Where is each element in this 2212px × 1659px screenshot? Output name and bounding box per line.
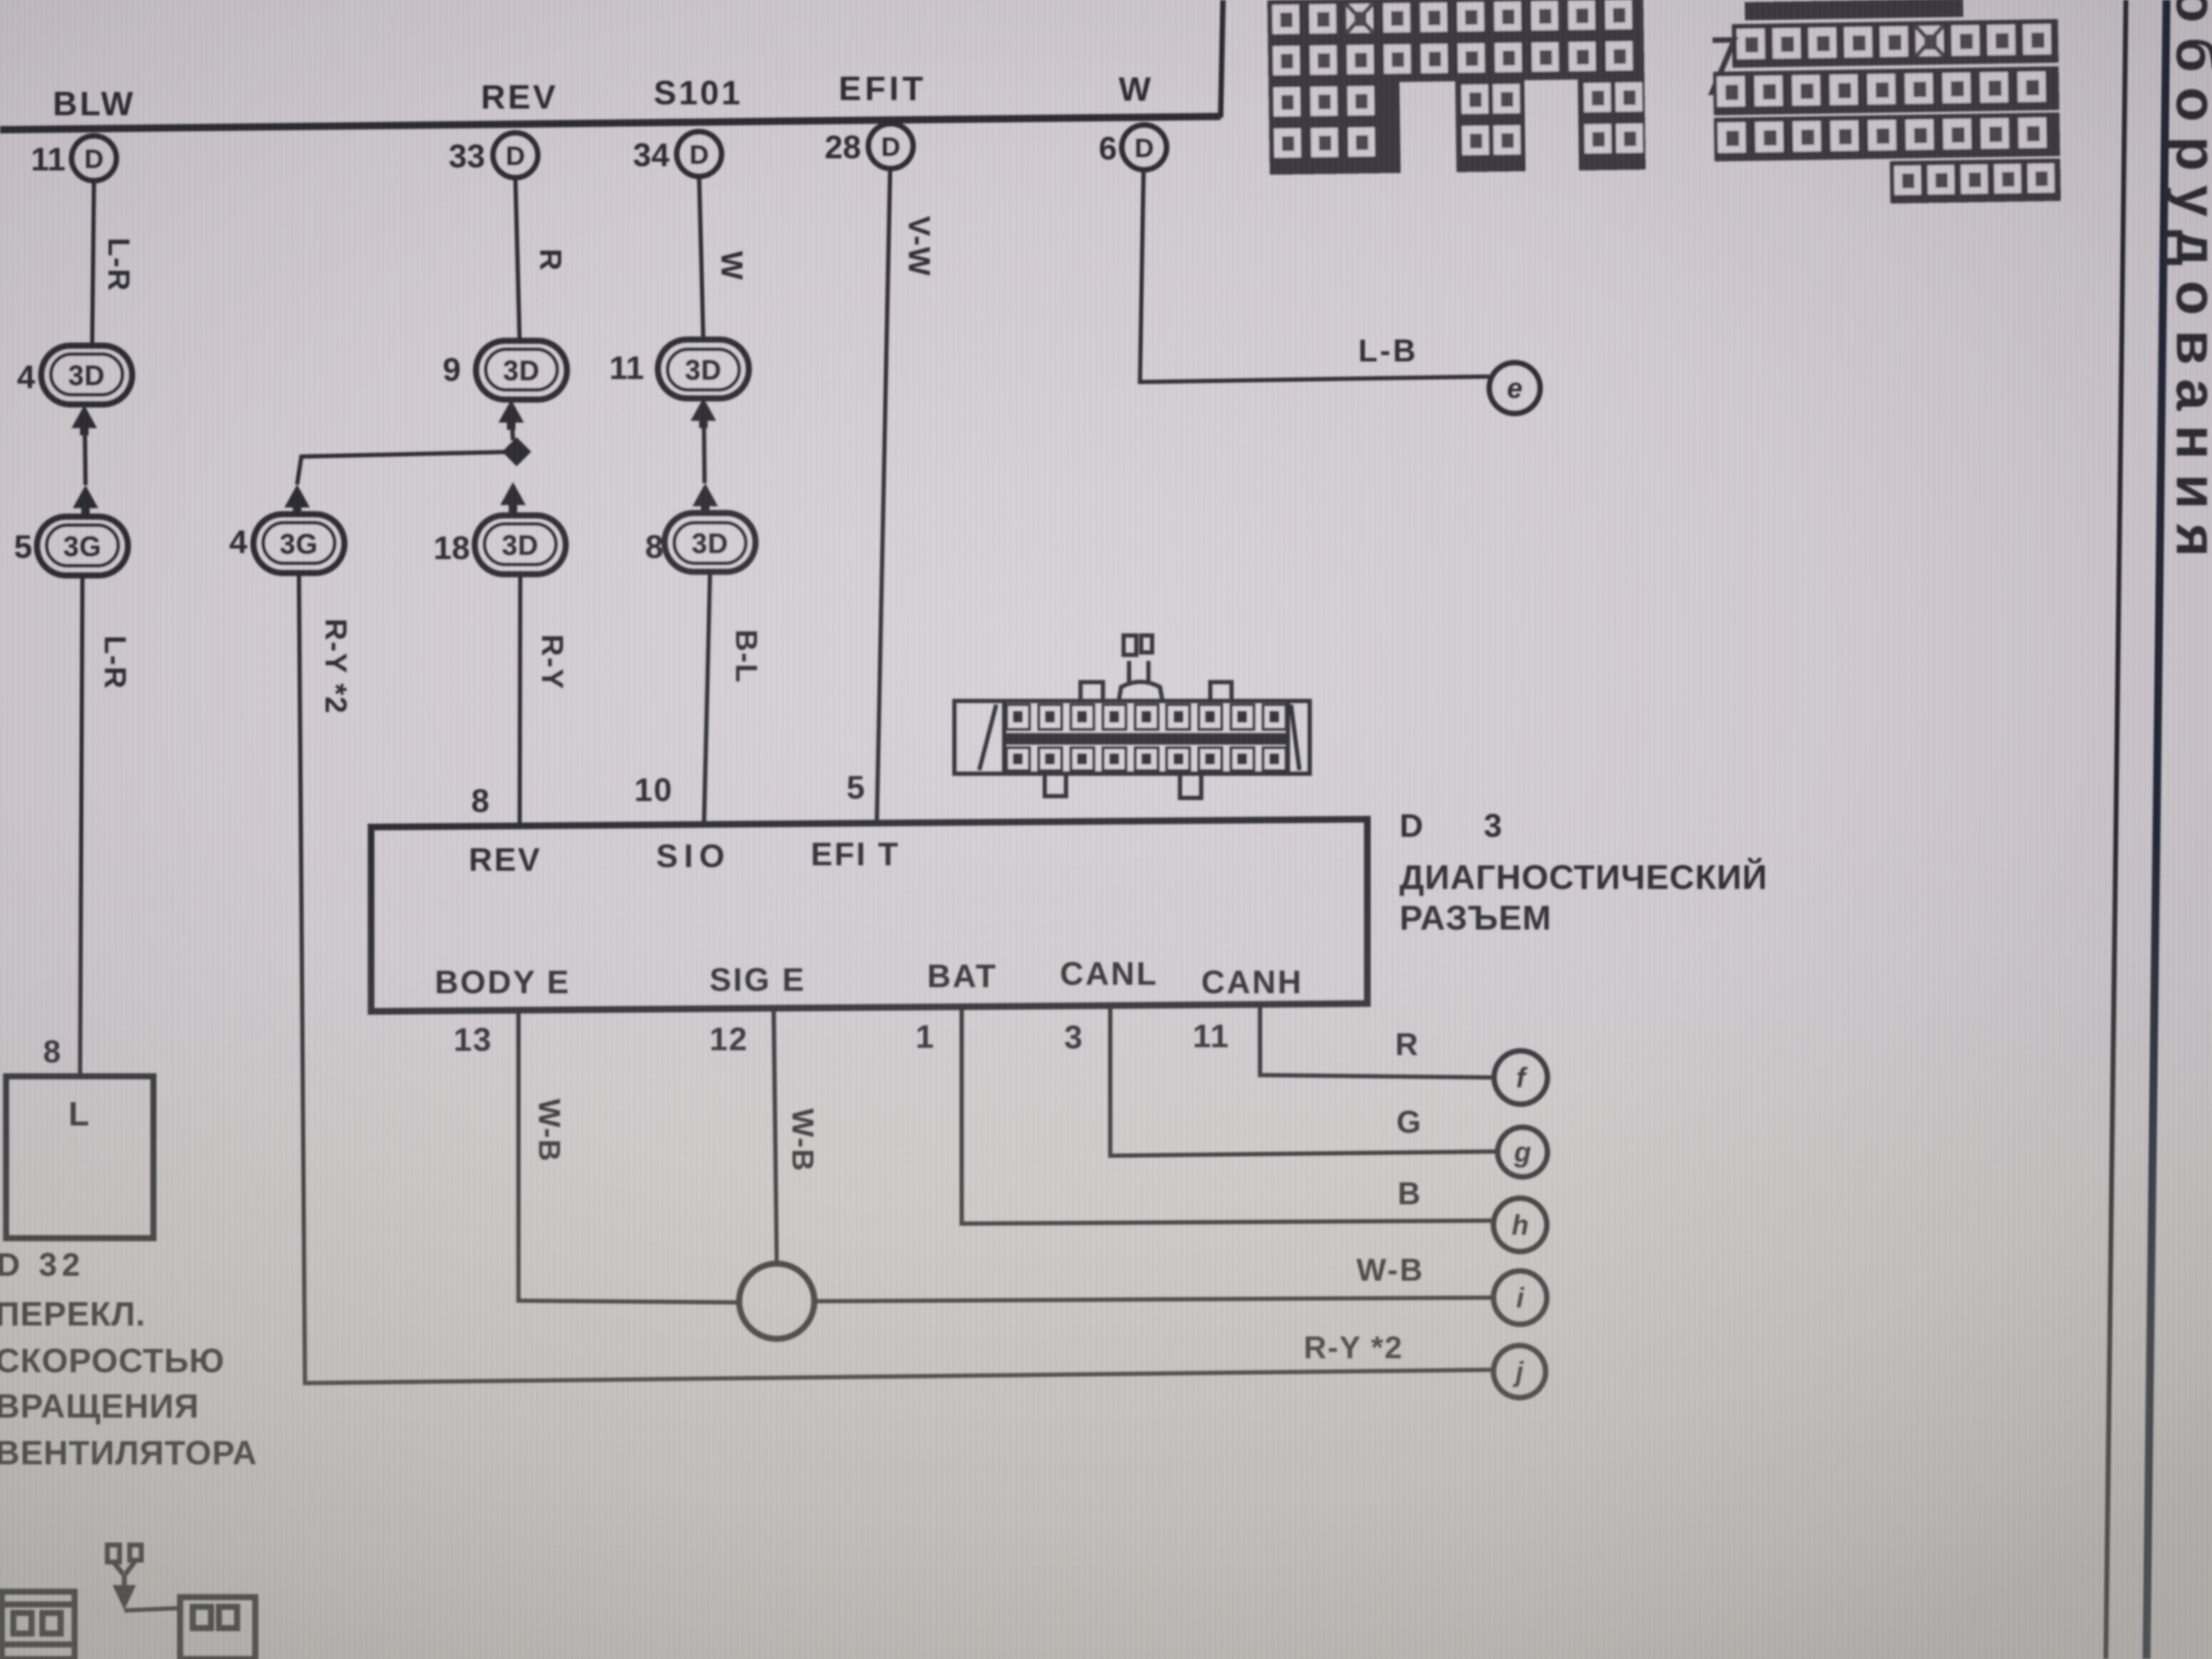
jumper wire junction to 4(3G) [297,452,517,484]
page border line (thick) [2147,0,2167,1659]
ground point f [1494,1051,1547,1104]
grid B row 1 left Z mark [1711,40,1736,93]
connector pinout grid B row 2 [1713,66,2059,115]
wire DLC pin 3 CANL to point g, G [1110,1008,1498,1156]
junction node on REV wire [502,437,531,466]
DLC3 pictogram pin rows [1006,705,1288,771]
wire 28(D) to DLC pin 5, V-W [877,169,890,823]
partial connector box (bottom left corner) [2,1592,75,1659]
DLC3 diagnostic connector box D3 [371,819,1367,1011]
wire DLC pin 12 to ground splice, W-B [774,1011,777,1265]
ground point g [1498,1127,1547,1177]
wire DLC pin 13 to ground splice, W-B [518,1011,740,1302]
connector arrow above 4(3G) [284,484,310,515]
DLC3 connector pictogram [954,635,1310,798]
connector arrow under 9(3D) [498,400,524,430]
ground point j [1493,1346,1546,1398]
connector pinout grid B row 1 [1732,19,2059,67]
wire 5(3G) to fan switch, L-R [80,575,82,1076]
ground point h [1493,1198,1547,1252]
connector arrow under 11(3D) [691,398,716,428]
connector arrow above 18(3D) [500,482,526,512]
X-ed pin in grid B row 1 [1915,25,1944,56]
connector 9(3D) [443,341,567,400]
connector 4(3G) [229,514,344,573]
wire 34(D) to 11(3D), W [699,176,703,342]
ground point e [1489,363,1540,414]
connector 4(3D) [17,346,132,404]
X-ed pin in grid A row 1 [1346,4,1373,33]
wire 33(D) to 9(3D), R [515,178,520,343]
connector pinout grid B row 4 [1890,158,2061,203]
connector pinout grid A row 3 [1269,78,1645,129]
ground point i [1493,1271,1547,1324]
connector pinout grid A row 1 [1267,0,1644,42]
connector 5(3G) [14,517,128,575]
connector 11(3D) [609,340,749,398]
partial connector box (bottom, second) [124,1597,255,1659]
wire ground splice to point i, W-B [814,1298,1494,1301]
wire stub up at bus right end [1221,0,1223,118]
pin 6(D) [1099,125,1167,170]
wire 11(3D) to 8(3D) [704,428,705,483]
connector arrow under 4(3D) [72,405,97,435]
pin 11(D) [31,136,116,181]
wire 6(D) to ground e, L-B [1140,170,1489,382]
connector arrow above 5(3G) [73,485,98,515]
page rule line (thin) [2106,0,2126,1659]
connector pinout grid B row 3 [1714,112,2060,161]
wire DLC pin 11 CANH to point f, R [1260,1006,1495,1078]
fan speed switch box L [6,1076,153,1238]
connector 18(3D) [434,515,566,574]
pin 33(D) [449,133,538,178]
connector arrow above 8(3D) [692,483,718,514]
wire 4(3D) to 5(3G) [85,435,85,485]
ground splice circle [739,1264,814,1339]
wire 18(3D) to DLC pin 8, R-Y [520,576,520,826]
connector pinout grid A row 4 [1269,119,1646,175]
wire 9(3D) arrow to junction [512,430,513,440]
connector pinout grid A row 2 [1268,36,1644,84]
wire 4(3G) down, R-Y #2 long run [299,573,1493,1383]
pin 34(D) [633,132,722,176]
wire 11(D) to 4(3D), L-R [92,181,94,346]
pin 28(D) [825,124,913,169]
wire DLC pin 1 BAT to point h, B [962,1009,1494,1224]
small connector symbol with arrow (bottom left) [107,1545,141,1604]
connector 8(3D) [645,513,756,572]
bus wire (main harness) [0,116,1221,130]
wire 8(3D) to DLC pin 10, B-L [704,572,710,826]
connector pinout grid B top bar [1744,0,1963,20]
